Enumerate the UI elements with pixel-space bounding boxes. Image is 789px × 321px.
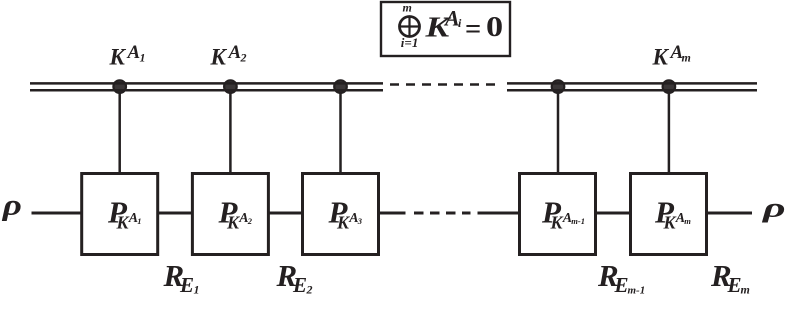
label P_K^A1 in gate 1 — [107, 195, 142, 233]
svg-text:2: 2 — [247, 216, 253, 226]
svg-text:2: 2 — [306, 283, 313, 297]
label K^Am over dot 5 — [652, 42, 691, 70]
label R_Em-1 below junction 4 — [597, 258, 645, 297]
svg-text:A: A — [127, 42, 141, 63]
label K^A2 over dot 2 — [210, 42, 247, 70]
svg-text:E: E — [292, 273, 307, 297]
label K^A1 over dot 1 — [109, 42, 146, 70]
formula K^Ai = 0 — [424, 6, 503, 45]
gate box U5 P_K^Am — [631, 174, 707, 255]
formula box frame — [381, 2, 510, 56]
quantum wire between gate 4 and gate 5 — [597, 212, 630, 215]
svg-text:2: 2 — [240, 50, 247, 64]
label P_K^Am-1 in gate 4 — [541, 195, 585, 233]
svg-text:E: E — [727, 273, 742, 297]
quantum wire solid before gate 4 — [478, 212, 519, 215]
control dot 2 — [224, 80, 237, 93]
label R_E2 below junction 2 — [276, 258, 313, 297]
classical wire dashed continuation — [390, 83, 496, 86]
quantum wire rho output segment — [707, 212, 752, 215]
svg-text:ρ: ρ — [2, 189, 22, 222]
svg-text:m-1: m-1 — [571, 216, 585, 226]
svg-text:=: = — [465, 14, 481, 45]
svg-text:K: K — [109, 44, 127, 69]
svg-text:i=1: i=1 — [401, 35, 419, 50]
label P_K^A2 in gate 2 — [218, 195, 253, 233]
svg-text:E: E — [614, 273, 629, 297]
control dot 1 — [113, 80, 126, 93]
oplus symbol in formula — [400, 17, 420, 37]
quantum wire between gate 2 and gate 3 — [270, 212, 303, 215]
wire stem from dot 2 to gate 2 — [229, 93, 232, 172]
svg-text:m: m — [684, 216, 691, 226]
control dot 3 — [334, 80, 347, 93]
classical double wire left section — [30, 83, 383, 90]
label R_Em below junction 5 — [710, 258, 750, 297]
svg-text:A: A — [228, 42, 242, 63]
svg-text:m: m — [741, 283, 750, 297]
gate box U4 P_K^Am-1 — [520, 174, 596, 255]
svg-text:i: i — [458, 16, 462, 30]
wire stem from dot 3 to gate 3 — [339, 93, 342, 172]
gate box U2 P_K^A2 — [192, 174, 268, 255]
svg-text:3: 3 — [357, 216, 363, 226]
label P_K^A3 in gate 3 — [328, 195, 363, 233]
gate box U1 P_K^A1 — [82, 174, 158, 255]
quantum wire between gate 1 and gate 2 — [159, 212, 192, 215]
quantum wire solid after gate 3 — [380, 212, 406, 215]
svg-text:E: E — [179, 273, 194, 297]
svg-text:m: m — [682, 50, 691, 64]
quantum wire dashed continuation — [414, 212, 471, 215]
svg-text:1: 1 — [194, 283, 200, 297]
svg-text:m-1: m-1 — [628, 285, 646, 297]
svg-text:ρ: ρ — [762, 192, 786, 223]
svg-text:1: 1 — [137, 216, 141, 226]
svg-text:0: 0 — [486, 11, 503, 43]
svg-text:m: m — [403, 1, 412, 15]
label P_K^Am in gate 5 — [654, 195, 691, 233]
quantum wire rho input segment — [32, 212, 82, 215]
wire stem from dot 1 to gate 1 — [118, 93, 121, 172]
control dot 4 — [552, 80, 565, 93]
svg-text:K: K — [210, 44, 228, 69]
label R_E1 below junction 1 — [163, 258, 200, 297]
wire stem from dot 4 to gate 4 — [557, 93, 560, 172]
control dot 5 — [663, 80, 676, 93]
wire stem from dot 5 to gate 5 — [668, 93, 671, 172]
gate box U3 P_K^A3 — [303, 174, 379, 255]
svg-text:K: K — [652, 44, 670, 69]
svg-text:1: 1 — [140, 50, 146, 64]
classical double wire right section — [507, 83, 757, 90]
